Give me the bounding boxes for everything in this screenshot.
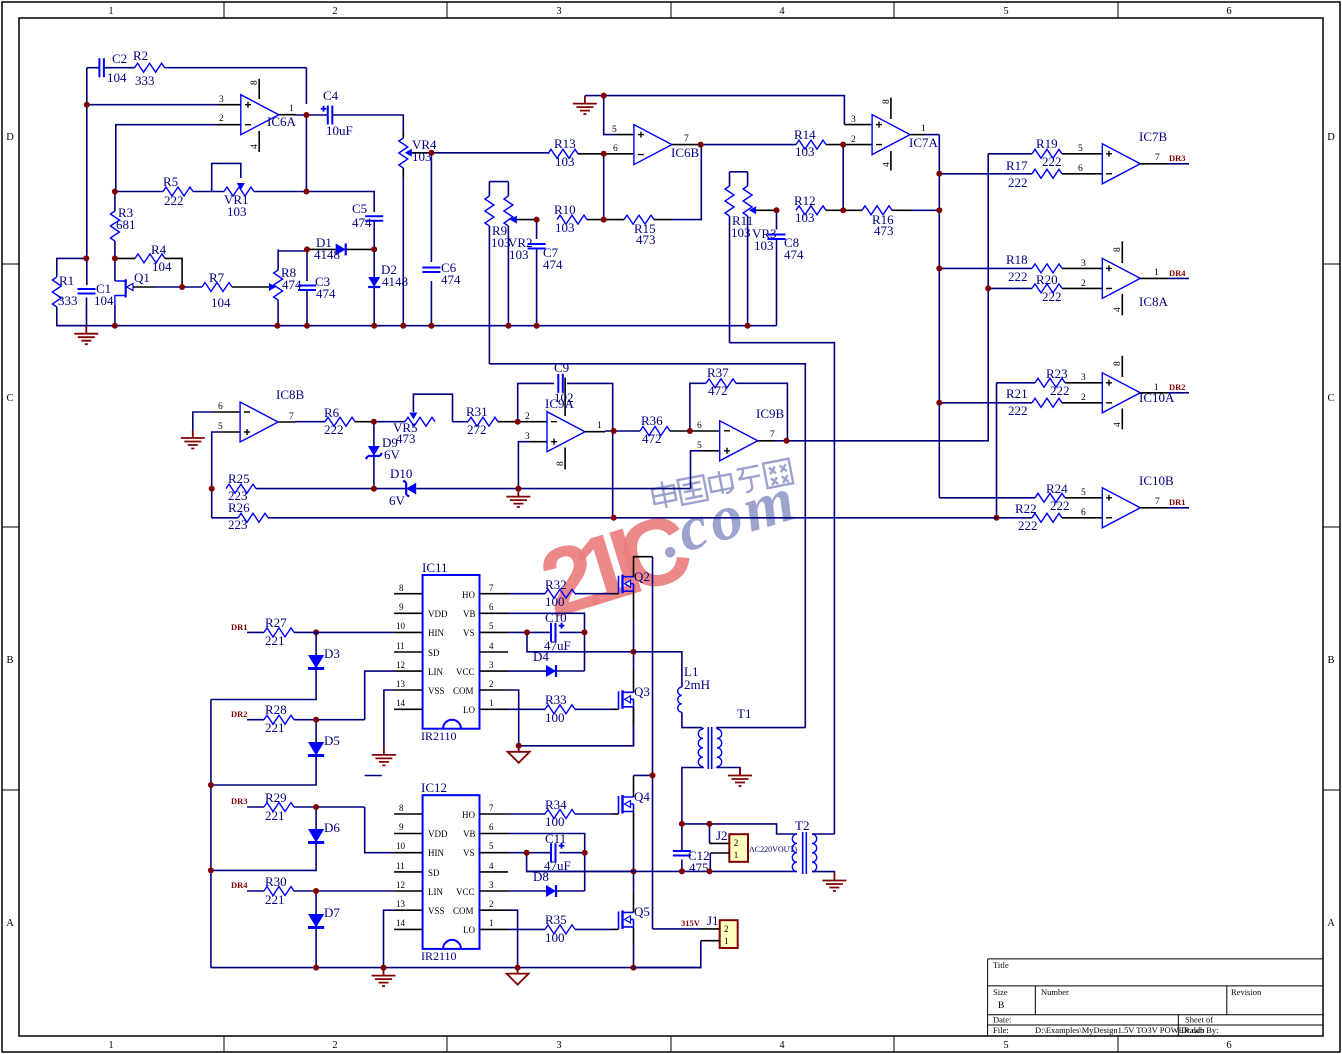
svg-text:IC12: IC12: [421, 780, 447, 795]
diode D3: [211, 632, 340, 699]
resistor R29: [264, 790, 365, 823]
svg-text:6: 6: [218, 402, 223, 412]
resistor R11: [725, 172, 753, 343]
resistor R4: [115, 242, 182, 287]
svg-text:8: 8: [556, 461, 566, 466]
svg-text:C11: C11: [545, 831, 566, 846]
diode D5: [211, 720, 340, 785]
svg-text:Q4: Q4: [634, 789, 650, 804]
svg-text:222: 222: [1008, 175, 1028, 190]
svg-text:Title: Title: [993, 960, 1009, 970]
svg-text:3: 3: [851, 115, 856, 125]
op-amp IC8B: [218, 387, 305, 442]
svg-text:222: 222: [164, 193, 184, 208]
wire IC9B output to bus: [758, 439, 989, 440]
svg-text:D: D: [6, 132, 14, 143]
svg-text:DR3: DR3: [231, 796, 248, 806]
wire IC9A output: [585, 431, 640, 518]
svg-text:473: 473: [396, 431, 416, 446]
svg-text:474: 474: [352, 215, 372, 230]
svg-text:3: 3: [556, 6, 561, 17]
svg-text:3: 3: [1081, 259, 1086, 269]
trimmer VR1: [212, 163, 254, 219]
svg-text:R7: R7: [209, 270, 225, 285]
wire IC8B pin5 vertical: [212, 432, 240, 518]
diode D9 zener 6V: [366, 422, 401, 489]
wire R11 net to T2: [730, 343, 835, 834]
svg-text:R19: R19: [1036, 136, 1058, 151]
svg-text:333: 333: [135, 73, 155, 88]
svg-text:C: C: [6, 393, 13, 404]
svg-text:File:: File:: [993, 1025, 1009, 1035]
capacitor C4 10uF: [321, 88, 353, 138]
wire IC9A pin3: [518, 442, 547, 489]
svg-text:6V: 6V: [389, 493, 406, 508]
wire IC10A output DR2: [1140, 382, 1189, 393]
capacitor C2: [99, 51, 127, 85]
svg-text:222: 222: [1008, 403, 1028, 418]
diode D1 4148: [307, 235, 374, 262]
svg-text:IC8B: IC8B: [276, 387, 305, 402]
svg-text:LIN: LIN: [428, 667, 443, 677]
svg-text:11: 11: [396, 641, 405, 651]
svg-text:6: 6: [613, 144, 618, 154]
resistor R30: [264, 874, 394, 907]
svg-text:Q2: Q2: [634, 569, 650, 584]
wire Q3 source: [633, 707, 635, 746]
svg-text:1: 1: [724, 936, 729, 946]
junction dots middle row: [209, 419, 790, 521]
resistor R22: [1015, 501, 1102, 533]
svg-text:6: 6: [1078, 164, 1083, 174]
op-amp IC9B: [697, 406, 785, 461]
wire VR4 bottom to rail: [402, 178, 404, 326]
wire IC9A output bus vertical: [997, 383, 1036, 518]
svg-text:R33: R33: [545, 692, 567, 707]
node AC220VOUT label: [749, 845, 797, 854]
svg-text:221: 221: [265, 633, 285, 648]
op-amp IC10A: [1081, 356, 1175, 430]
svg-text:C5: C5: [352, 201, 367, 216]
svg-text:100: 100: [545, 814, 565, 829]
svg-text:6: 6: [1081, 508, 1086, 518]
svg-text:8: 8: [250, 80, 260, 85]
svg-text:VSS: VSS: [428, 906, 445, 916]
svg-text:2: 2: [724, 924, 729, 934]
svg-text:315V: 315V: [681, 918, 701, 928]
wire IC8A output DR4: [1140, 268, 1189, 278]
svg-text:14: 14: [396, 698, 406, 708]
resistor R37: [706, 365, 736, 398]
svg-text:3: 3: [1081, 373, 1086, 383]
svg-text:HIN: HIN: [428, 848, 444, 858]
svg-text:VSS: VSS: [428, 686, 445, 696]
node 315V label: [681, 918, 701, 928]
wire IC6B output to R14: [672, 144, 796, 146]
ground symbol at C1: [74, 326, 98, 345]
IC IC12 IR2110 box: [394, 780, 508, 963]
wire IC7A pin2: [843, 145, 872, 211]
svg-text:7: 7: [684, 134, 689, 144]
svg-text:C4: C4: [323, 88, 339, 103]
svg-text:D:\Examples\MyDesign1.5V TO3V: D:\Examples\MyDesign1.5V TO3V POWER.ddb: [1035, 1025, 1204, 1035]
wire IC7B output DR3: [1140, 153, 1189, 164]
svg-text:1: 1: [597, 421, 602, 431]
capacitor C8: [768, 210, 805, 325]
svg-text:R14: R14: [794, 127, 816, 142]
svg-text:J1: J1: [707, 913, 719, 928]
svg-text:4: 4: [1113, 422, 1123, 427]
junction dots top-left: [83, 102, 434, 329]
trimmer VR5: [374, 394, 453, 446]
IC IC11 IR2110 box: [394, 560, 508, 743]
transistor Q5: [619, 904, 650, 929]
svg-text:R22: R22: [1015, 501, 1037, 516]
svg-text:VDD: VDD: [428, 829, 448, 839]
svg-text:R6: R6: [324, 405, 340, 420]
svg-text:VS: VS: [463, 848, 475, 858]
wire Q4 source: [633, 812, 635, 872]
svg-text:D5: D5: [324, 733, 340, 748]
wire D1 C3 node: [306, 249, 308, 325]
wire IC12 pin10 HIN from DR3: [365, 807, 394, 853]
svg-text:2: 2: [489, 679, 494, 689]
op-amp IC7B: [1078, 129, 1168, 184]
junction dots right column: [936, 171, 999, 521]
svg-text:Sheet of: Sheet of: [1185, 1015, 1213, 1025]
transistor Q1: [115, 258, 182, 325]
junction dots DR column: [208, 717, 319, 971]
capacitor C10 47uF: [544, 610, 571, 653]
svg-text:VCC: VCC: [456, 887, 475, 897]
wire IC11 pin13 VSS to ground: [384, 690, 394, 747]
resistor R1: [52, 258, 86, 325]
svg-text:IC11: IC11: [422, 560, 448, 575]
svg-text:222: 222: [1042, 154, 1062, 169]
svg-text:1: 1: [489, 698, 494, 708]
wire bottom ground rail: [211, 967, 701, 969]
capacitor C9: [554, 360, 574, 405]
svg-text:R24: R24: [1046, 481, 1068, 496]
svg-text:R31: R31: [466, 404, 488, 419]
svg-text:4: 4: [882, 162, 892, 167]
op-amp IC9A: [525, 378, 602, 470]
svg-text:8: 8: [882, 99, 892, 104]
border zone numbers top: [108, 6, 1231, 17]
resistor R13: [548, 136, 604, 169]
wire R25 net to IC9B pin5: [518, 488, 690, 490]
svg-text:IC8A: IC8A: [1139, 294, 1169, 309]
node DR2 label: [231, 709, 264, 720]
svg-text:DR1: DR1: [1169, 497, 1186, 507]
wire IC9B output bus vertical: [988, 154, 1032, 440]
capacitor C6: [422, 260, 461, 287]
svg-text:R2: R2: [133, 48, 148, 63]
svg-text:3: 3: [219, 95, 224, 105]
resistor R34: [508, 797, 619, 829]
wire IC6B pin6: [604, 154, 634, 220]
svg-text:VB: VB: [463, 609, 476, 619]
svg-text:103: 103: [795, 210, 815, 225]
connector J2: [710, 828, 748, 871]
wire IC11 COM net: [508, 690, 634, 746]
resistor R15: [604, 145, 702, 247]
border zone numbers bottom: [108, 1040, 1231, 1051]
wire R5 VR1 row: [116, 115, 307, 192]
svg-text:B: B: [6, 655, 13, 666]
wire T1 primary bottom to C12 node: [682, 824, 797, 834]
wire Q4 drain to 315V rail: [634, 775, 653, 797]
title block: [988, 959, 1323, 1036]
wire J2 pin2 branch: [710, 824, 730, 844]
svg-text:474: 474: [784, 247, 804, 262]
capacitor C3: [298, 274, 336, 301]
svg-text:R34: R34: [545, 797, 567, 812]
svg-text:10uF: 10uF: [326, 123, 353, 138]
svg-text:R27: R27: [265, 615, 287, 630]
svg-text:103: 103: [795, 144, 815, 159]
resistor R21: [1006, 386, 1102, 418]
resistor R19: [1032, 136, 1102, 169]
wire diode common left vertical: [210, 700, 212, 968]
svg-text:VS: VS: [463, 628, 475, 638]
wire Q5 source: [633, 927, 635, 968]
wire IC8B output to R6: [278, 421, 325, 423]
resistor R16: [843, 206, 939, 238]
svg-text:223: 223: [228, 517, 248, 532]
border zone letters: [6, 132, 1335, 929]
svg-text:SD: SD: [428, 648, 440, 658]
svg-text:R5: R5: [163, 174, 178, 189]
svg-text:IC6A: IC6A: [267, 114, 297, 129]
resistor R25: [226, 471, 374, 503]
svg-text:IR2110: IR2110: [421, 729, 457, 743]
resistor R17: [1006, 158, 1102, 190]
svg-text:DR1: DR1: [231, 622, 248, 632]
svg-text:4: 4: [779, 1040, 785, 1051]
wire Q2 drain bracket 315V top: [634, 557, 653, 577]
svg-text:100: 100: [545, 710, 565, 725]
wire stub unused: [365, 775, 382, 777]
connector J1: [634, 913, 738, 968]
svg-text:104: 104: [152, 259, 172, 274]
wire IC9B pin5: [691, 451, 720, 489]
wire VR4 wiper node to R13: [431, 152, 548, 154]
junction dots IC12 area: [381, 850, 637, 971]
svg-text:12: 12: [396, 880, 405, 890]
junction dots IC11 area: [313, 629, 636, 748]
svg-text:Date:: Date:: [993, 1015, 1011, 1025]
ground symbol IC6B: [573, 96, 597, 115]
svg-text:A: A: [6, 918, 14, 929]
svg-text:R36: R36: [641, 413, 663, 428]
svg-text:1: 1: [921, 124, 926, 134]
wire Q3 drain: [633, 652, 635, 693]
svg-text:5: 5: [1081, 488, 1086, 498]
svg-text:IC7A: IC7A: [909, 135, 939, 150]
resistor R27: [264, 615, 394, 648]
op-amp IC6A: [219, 79, 297, 152]
svg-text:100: 100: [545, 594, 565, 609]
svg-text:222: 222: [1008, 269, 1028, 284]
svg-text:LIN: LIN: [428, 887, 443, 897]
diode D4: [508, 649, 556, 677]
op-amp IC10B: [1081, 473, 1174, 528]
svg-text:1: 1: [108, 1040, 113, 1051]
diode D2 4148: [368, 249, 408, 325]
inductor L1 2mH: [634, 652, 711, 728]
resistor R14: [794, 127, 843, 159]
svg-text:103: 103: [227, 204, 247, 219]
svg-text:2: 2: [219, 114, 224, 124]
svg-text:R32: R32: [545, 577, 567, 592]
svg-text:9: 9: [399, 602, 404, 612]
wire IC9A pin2 and C9 loop: [518, 383, 613, 431]
svg-text:14: 14: [396, 918, 406, 928]
resistor R24: [1035, 481, 1102, 513]
wire IC12 pin13 VSS to rail: [384, 910, 395, 967]
transformer T2: [792, 818, 834, 874]
wire mid rail to T2 primary bottom: [527, 870, 797, 872]
svg-text:HO: HO: [462, 810, 475, 820]
svg-text:473: 473: [636, 232, 656, 247]
wire IC6A pin3 input: [87, 104, 241, 106]
svg-text:221: 221: [265, 892, 285, 907]
wire Q2 source to mid node: [633, 591, 635, 652]
svg-text:R20: R20: [1036, 272, 1058, 287]
svg-text:D4: D4: [533, 649, 549, 664]
capacitor C5: [306, 192, 383, 250]
resistor R35: [508, 912, 619, 945]
wire left vertical to C1/ground: [86, 68, 88, 326]
svg-text:8: 8: [1113, 361, 1123, 366]
svg-text:C9: C9: [554, 360, 569, 375]
op-amp IC6B: [612, 125, 700, 165]
svg-text:R17: R17: [1006, 158, 1028, 173]
trimmer R8: [269, 249, 307, 325]
svg-text:7: 7: [489, 803, 494, 813]
wire 315V rail vertical: [653, 557, 720, 929]
trimmer VR3: [730, 172, 777, 326]
svg-text:8: 8: [399, 583, 404, 593]
svg-text:1: 1: [108, 6, 113, 17]
svg-text:R37: R37: [707, 365, 729, 380]
svg-text:5: 5: [489, 621, 494, 631]
svg-text:9: 9: [399, 822, 404, 832]
svg-text:5: 5: [218, 422, 223, 432]
wire Q5 drain: [633, 871, 635, 912]
svg-text:104: 104: [94, 293, 114, 308]
trimmer VR2: [489, 182, 536, 326]
diode D10 zener 6V: [374, 466, 519, 508]
resistor R7: [182, 270, 269, 310]
svg-text:Number: Number: [1041, 987, 1069, 997]
svg-text:4: 4: [1113, 307, 1123, 312]
svg-text:3: 3: [489, 660, 494, 670]
svg-text:473: 473: [874, 223, 894, 238]
svg-text:Drawn By:: Drawn By:: [1181, 1025, 1219, 1035]
svg-text:J2: J2: [716, 828, 728, 843]
svg-text:2: 2: [1081, 393, 1086, 403]
svg-text:SD: SD: [428, 868, 440, 878]
svg-text:11: 11: [396, 861, 405, 871]
svg-text:2mH: 2mH: [684, 677, 710, 692]
ground symbol T2 secondary: [822, 873, 846, 892]
svg-text:4: 4: [250, 144, 260, 149]
svg-text:104: 104: [211, 295, 231, 310]
svg-text:222: 222: [324, 422, 344, 437]
svg-text:7: 7: [489, 583, 494, 593]
svg-text:DR2: DR2: [1169, 382, 1186, 392]
svg-text:LO: LO: [463, 705, 475, 715]
resistor R32: [508, 577, 619, 609]
svg-text:B: B: [998, 1001, 1004, 1011]
capacitor C12 475: [673, 824, 710, 875]
wire C4 to VR4 top: [332, 115, 403, 131]
diode D6: [211, 807, 340, 870]
svg-text:IC9B: IC9B: [756, 406, 785, 421]
svg-text:D: D: [1327, 132, 1335, 143]
wire IC7A output bus vertical: [939, 135, 1035, 498]
ground symbol T1 secondary: [728, 768, 752, 787]
node DR4 label: [231, 880, 264, 891]
svg-text:12: 12: [396, 660, 405, 670]
svg-text:T1: T1: [737, 706, 751, 721]
junction dots mid-top: [505, 93, 846, 329]
svg-text:COM: COM: [453, 906, 474, 916]
svg-text:2: 2: [332, 1040, 337, 1051]
wire IC12 VS net: [508, 853, 634, 872]
svg-text:474: 474: [316, 286, 336, 301]
resistor R18: [1006, 252, 1102, 284]
svg-text:IC9A: IC9A: [545, 396, 575, 411]
resistor R9: [485, 182, 511, 364]
resistor R28: [264, 702, 365, 735]
resistor R5: [163, 174, 193, 208]
wire IC9B pin6 R37 loop: [690, 383, 788, 441]
wire IC6B pin5 ground net: [585, 96, 872, 135]
wire IC8B pin6 to ground: [193, 412, 240, 430]
watermark 21IC.com 中国电子网: [529, 457, 806, 638]
svg-text:13: 13: [396, 899, 406, 909]
transformer T1: [682, 706, 805, 824]
capacitor C1: [78, 281, 115, 308]
svg-text:R10: R10: [554, 202, 576, 217]
svg-text:1: 1: [1154, 268, 1159, 278]
svg-text:D3: D3: [324, 646, 340, 661]
svg-text:4: 4: [489, 861, 494, 871]
wire C2-R2 feedback top: [87, 68, 307, 104]
svg-text:4148: 4148: [382, 274, 408, 289]
diode D8: [508, 869, 556, 897]
ground rail bottom left: [57, 325, 777, 327]
svg-text:R13: R13: [554, 136, 576, 151]
svg-text:6V: 6V: [384, 447, 401, 462]
svg-text:C10: C10: [545, 610, 567, 625]
svg-text:8: 8: [399, 803, 404, 813]
wire IC6A pin2 input: [116, 125, 241, 192]
svg-text:2: 2: [489, 899, 494, 909]
ground signal IC12 COM: [507, 968, 529, 985]
svg-text:R23: R23: [1046, 366, 1068, 381]
svg-text:681: 681: [116, 217, 136, 232]
svg-text:475: 475: [689, 860, 709, 875]
wire IC6A output: [279, 114, 328, 116]
svg-text:5: 5: [1078, 144, 1083, 154]
svg-text:R21: R21: [1006, 386, 1028, 401]
svg-text:IC7B: IC7B: [1139, 129, 1168, 144]
resistor R10: [554, 202, 604, 235]
